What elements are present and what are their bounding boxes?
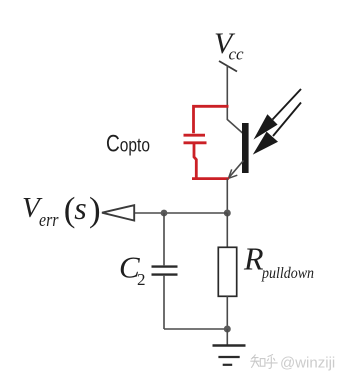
- wire resistor to node C: [226, 296, 228, 329]
- label Rpulldown: [243, 241, 314, 282]
- transistor Q1 emitter wire: [229, 161, 244, 178]
- light arrow 2: [253, 103, 301, 155]
- capacitor Copto bottom wire: [192, 144, 229, 179]
- node A junction dot: [224, 210, 231, 217]
- svg-text:s: s: [74, 190, 86, 226]
- wire bottom rail: [164, 328, 227, 330]
- wire C2 to bottom rail: [163, 276, 165, 329]
- wire node A to resistor: [226, 213, 228, 248]
- svg-text:cc: cc: [229, 45, 245, 64]
- capacitor C2 bottom plate: [152, 273, 178, 275]
- ground: [213, 346, 246, 365]
- svg-text:2: 2: [137, 270, 146, 289]
- capacitor Copto bottom plate: [184, 141, 207, 144]
- Verr open arrowhead: [102, 205, 134, 220]
- capacitor Copto top plate: [184, 134, 206, 137]
- node Vcc label: [214, 27, 244, 63]
- svg-text:pulldown: pulldown: [261, 265, 314, 282]
- label Verr(s): [22, 190, 101, 231]
- svg-text:@winziji: @winziji: [280, 355, 335, 372]
- svg-text:err: err: [39, 210, 59, 231]
- svg-text:): ): [89, 190, 101, 229]
- wire node B down to C2: [163, 213, 165, 265]
- node B junction dot: [161, 210, 168, 217]
- wire Vcc to collector: [227, 66, 242, 134]
- label C2: [119, 250, 146, 290]
- transistor Q1 base bar: [242, 123, 249, 173]
- wire emitter to node A: [226, 179, 228, 214]
- light arrow 1: [254, 89, 302, 140]
- transistor Q1 emitter arrowhead: [229, 169, 238, 178]
- wire node A to Verr arrow: [134, 212, 227, 214]
- svg-text:R: R: [243, 241, 264, 277]
- wire node C to ground: [226, 329, 228, 345]
- node C junction dot: [224, 326, 231, 333]
- watermark 知 glyph: [250, 355, 265, 368]
- svg-text:Copto: Copto: [106, 130, 150, 157]
- Vcc terminal tick: [219, 61, 237, 72]
- resistor Rpulldown body: [218, 247, 236, 296]
- capacitor C2 top plate: [152, 265, 178, 267]
- capacitor Copto (red) top wire: [194, 106, 229, 133]
- watermark 乎 glyph: [266, 354, 278, 368]
